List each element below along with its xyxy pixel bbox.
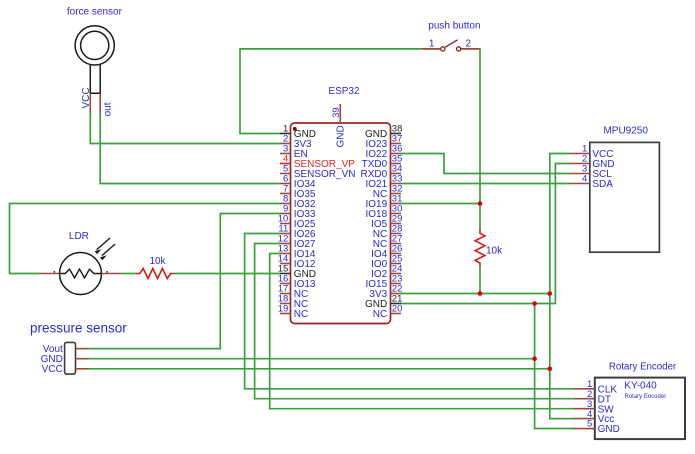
junction R2/3V3 rail bbox=[478, 291, 483, 296]
wire VCC rail: MPU9250 VCC down to encoder Vcc bbox=[550, 154, 575, 419]
svg-text:19: 19 bbox=[278, 304, 289, 315]
ESP32 pin 27 NC bbox=[373, 234, 403, 250]
svg-text:LDR: LDR bbox=[69, 231, 89, 242]
pressure sensor pin VCC bbox=[42, 364, 89, 375]
svg-text:5: 5 bbox=[587, 419, 592, 430]
wire ESP32 pin22 3V3 to VCC rail bbox=[401, 293, 550, 295]
rotary encoder KY-040 U3 bbox=[595, 361, 685, 439]
svg-text:2: 2 bbox=[466, 38, 472, 49]
junction IO19/button/R2 bbox=[478, 201, 483, 206]
ESP32 pin 20 NC bbox=[373, 304, 403, 320]
wire force-sensor VCC to ESP32 pin2 3V3 bbox=[90, 113, 280, 144]
ESP32 pin 3 EN bbox=[280, 144, 308, 160]
junction pressure VCC bbox=[548, 367, 553, 372]
ESP32 pin 30 IO18 bbox=[366, 204, 403, 220]
wire ESP32 pin21 GND to MPU9250 GND bbox=[401, 164, 570, 304]
ESP32 pin 4 SENSOR_VP bbox=[280, 154, 355, 170]
svg-text:GND: GND bbox=[336, 125, 347, 147]
svg-text:Rotary Encoder: Rotary Encoder bbox=[609, 361, 677, 372]
junction pressure GND bbox=[532, 356, 537, 361]
wire pressure-sensor Vout to ESP32 pin9 IO33 bbox=[89, 214, 280, 349]
svg-text:pressure sensor: pressure sensor bbox=[30, 321, 127, 336]
IMU module MPU9250 U2 bbox=[590, 125, 660, 252]
ESP32 pin 19 NC bbox=[278, 304, 309, 320]
ESP32 pin 14 IO12 bbox=[278, 254, 316, 270]
wire pressure-sensor VCC to VCC rail bbox=[89, 368, 550, 370]
ESP32 pin 34 RXD0 bbox=[361, 164, 403, 180]
ESP32 pin 24 IO2 bbox=[371, 264, 402, 280]
MPU9250 pin 2 GND bbox=[570, 154, 615, 170]
wire ESP32 pin11 IO26 to encoder CLK bbox=[245, 234, 575, 389]
LDR photoresistor bbox=[40, 231, 121, 295]
ESP32 pin 33 IO21 bbox=[366, 174, 403, 190]
svg-text:VCC: VCC bbox=[42, 364, 63, 375]
wire ESP32 pin12 IO27 to encoder DT bbox=[255, 244, 575, 399]
svg-text:SDA: SDA bbox=[592, 179, 613, 190]
ESP32 pin 11 IO26 bbox=[278, 224, 315, 240]
force sensor pin out bbox=[99, 93, 101, 113]
svg-text:10k: 10k bbox=[149, 256, 166, 267]
ESP32 pin 32 NC bbox=[373, 184, 403, 200]
svg-text:1: 1 bbox=[429, 38, 435, 49]
pressure sensor J1 bbox=[30, 321, 127, 375]
ESP32 pin 17 NC bbox=[278, 284, 309, 300]
rotary encoder pin 2 DT bbox=[575, 389, 611, 405]
ESP32 pin 5 SENSOR_VN bbox=[280, 164, 355, 180]
MPU9250 pin 3 SCL bbox=[570, 164, 613, 180]
resistor R1 10k bbox=[136, 256, 175, 279]
rotary encoder pin 4 Vcc bbox=[575, 409, 615, 425]
junction GND rail bbox=[532, 301, 537, 306]
svg-text:39: 39 bbox=[331, 107, 342, 118]
svg-text:Rotary Encoder: Rotary Encoder bbox=[625, 394, 667, 400]
LDR pin right bbox=[102, 273, 122, 275]
ESP32 pin 13 IO14 bbox=[278, 244, 316, 260]
ESP32 pin 18 NC bbox=[278, 294, 309, 310]
svg-text:10k: 10k bbox=[486, 246, 503, 257]
resistor R2 10k bbox=[475, 229, 503, 267]
ESP32 pin 39 GND top bbox=[339, 104, 341, 123]
ESP32 pin 16 IO13 bbox=[278, 274, 316, 290]
ESP32 pin 2 3V3 bbox=[280, 134, 312, 150]
wire LDR left up to ESP32 pin8 IO32 bbox=[10, 204, 281, 274]
svg-text:KY-040: KY-040 bbox=[624, 381, 657, 392]
LDR light arrows bbox=[95, 238, 116, 260]
svg-text:4: 4 bbox=[582, 174, 587, 185]
svg-text:out: out bbox=[102, 102, 113, 116]
wire push-button pin2 down to node IO19 bbox=[478, 49, 481, 230]
ESP32 pin 15 GND bbox=[278, 264, 316, 280]
wire ESP32 pin13 IO14 to encoder SW bbox=[270, 254, 575, 409]
ESP32 pin 31 IO19 bbox=[366, 194, 403, 210]
svg-text:MPU9250: MPU9250 bbox=[603, 125, 648, 136]
rotary encoder pin 3 SW bbox=[575, 399, 615, 415]
ESP32 pin 1 GND bbox=[280, 124, 316, 140]
ESP32 pin 22 3V3 bbox=[369, 284, 402, 300]
push button S1 bbox=[421, 21, 480, 52]
force sensor pin VCC bbox=[89, 93, 91, 113]
svg-text:push button: push button bbox=[428, 21, 480, 32]
pressure sensor pin GND bbox=[41, 354, 89, 365]
wire LDR right to 10k R1 bbox=[122, 273, 136, 275]
wire push-button pin1 to ESP32 pin1 GND bbox=[240, 49, 421, 134]
svg-text:GND: GND bbox=[598, 424, 620, 435]
svg-text:NC: NC bbox=[373, 309, 387, 320]
wire GND rail down to encoder GND bbox=[535, 304, 575, 429]
ESP32 pin 7 IO35 bbox=[280, 184, 316, 200]
ESP32 pin 35 TXD0 bbox=[362, 154, 403, 170]
wire 10k R1 to ESP32 pin15 GND bbox=[175, 273, 281, 275]
svg-text:VCC: VCC bbox=[81, 87, 92, 108]
ESP32 pin 21 GND bbox=[365, 294, 402, 310]
svg-text:20: 20 bbox=[392, 304, 403, 315]
rotary encoder pin 5 GND bbox=[575, 419, 620, 435]
MPU9250 pin 1 VCC bbox=[570, 144, 614, 160]
wire ESP32 pin36 IO22 to MPU9250 SCL bbox=[401, 154, 570, 174]
MPU9250 pin 4 SDA bbox=[570, 174, 614, 190]
ESP32 pin 29 IO5 bbox=[371, 214, 402, 230]
ESP32 pin 23 IO15 bbox=[366, 274, 403, 290]
wire force-sensor out to ESP32 pin6 IO34 bbox=[100, 113, 280, 184]
svg-text:ESP32: ESP32 bbox=[328, 86, 360, 97]
ESP32 pin 25 IO0 bbox=[371, 254, 402, 270]
ESP32 pin 26 IO4 bbox=[371, 244, 402, 260]
LDR pin left bbox=[40, 273, 59, 275]
ESP32 pin 28 NC bbox=[373, 224, 403, 240]
svg-text:force sensor: force sensor bbox=[67, 7, 123, 18]
svg-text:NC: NC bbox=[294, 309, 308, 320]
wire 10k R2 bottom to 3V3 rail bbox=[479, 267, 481, 294]
ESP32 pin 38 GND bbox=[365, 124, 402, 140]
ESP32 pin 9 IO33 bbox=[280, 204, 316, 220]
wire ESP32 pin31 IO19 to junction bbox=[401, 203, 480, 205]
ESP32 pin 36 IO22 bbox=[366, 144, 403, 160]
pressure sensor pin Vout bbox=[43, 344, 89, 355]
force sensor bbox=[67, 7, 123, 117]
ESP32 pin 37 IO23 bbox=[366, 134, 403, 150]
wire pressure-sensor GND to GND rail bbox=[89, 358, 535, 360]
ESP32 pin1 marker bbox=[293, 127, 297, 131]
microcontroller ESP32 U1 bbox=[291, 86, 391, 324]
ESP32 pin 8 IO32 bbox=[280, 194, 316, 210]
rotary encoder pin 1 CLK bbox=[575, 379, 618, 395]
ESP32 pin 6 IO34 bbox=[280, 174, 316, 190]
junction 3V3/VCC rail bbox=[548, 291, 553, 296]
ESP32 pin 10 IO25 bbox=[278, 214, 316, 230]
wire ESP32 pin33 IO21 to MPU9250 SDA bbox=[401, 183, 570, 185]
ESP32 pin 12 IO27 bbox=[278, 234, 316, 250]
